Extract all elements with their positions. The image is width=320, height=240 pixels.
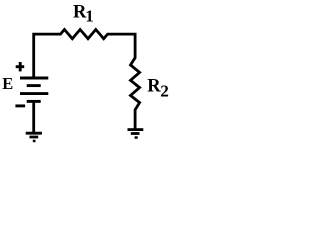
svg-text:1: 1: [85, 7, 94, 26]
svg-text:2: 2: [160, 82, 169, 101]
svg-text:E: E: [2, 74, 13, 93]
svg-text:R: R: [147, 77, 161, 97]
